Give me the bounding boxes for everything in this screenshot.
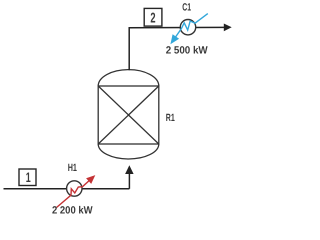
svg-text:H1: H1 bbox=[68, 162, 77, 174]
energy line blue (heat out) bbox=[174, 14, 208, 40]
box stream label 1 bbox=[19, 169, 36, 186]
svg-text:1: 1 bbox=[26, 170, 31, 185]
reactor vessel R1 bbox=[98, 70, 159, 159]
wire feed horizontal (stream 1) bbox=[4, 188, 130, 190]
arrowhead blue energy bbox=[170, 34, 179, 44]
wire top horizontal (stream 2) bbox=[129, 26, 225, 28]
wire feed vertical riser into vessel bbox=[128, 174, 130, 189]
svg-text:2: 2 bbox=[150, 10, 155, 26]
svg-text:C1: C1 bbox=[182, 1, 191, 13]
energy line red (heat in) bbox=[57, 179, 92, 208]
svg-text:2 500 kW: 2 500 kW bbox=[166, 45, 208, 57]
arrowhead red energy bbox=[86, 175, 95, 184]
svg-text:2 200 kW: 2 200 kW bbox=[52, 205, 93, 217]
heater H1 circle bbox=[67, 181, 82, 196]
svg-text:R1: R1 bbox=[166, 112, 175, 124]
cooler C1 circle bbox=[180, 20, 195, 35]
arrowhead stream 2 out bbox=[224, 24, 232, 32]
box stream label 2 bbox=[144, 8, 162, 26]
wire vessel top riser bbox=[128, 28, 130, 70]
arrowhead feed into vessel bottom bbox=[125, 165, 134, 174]
